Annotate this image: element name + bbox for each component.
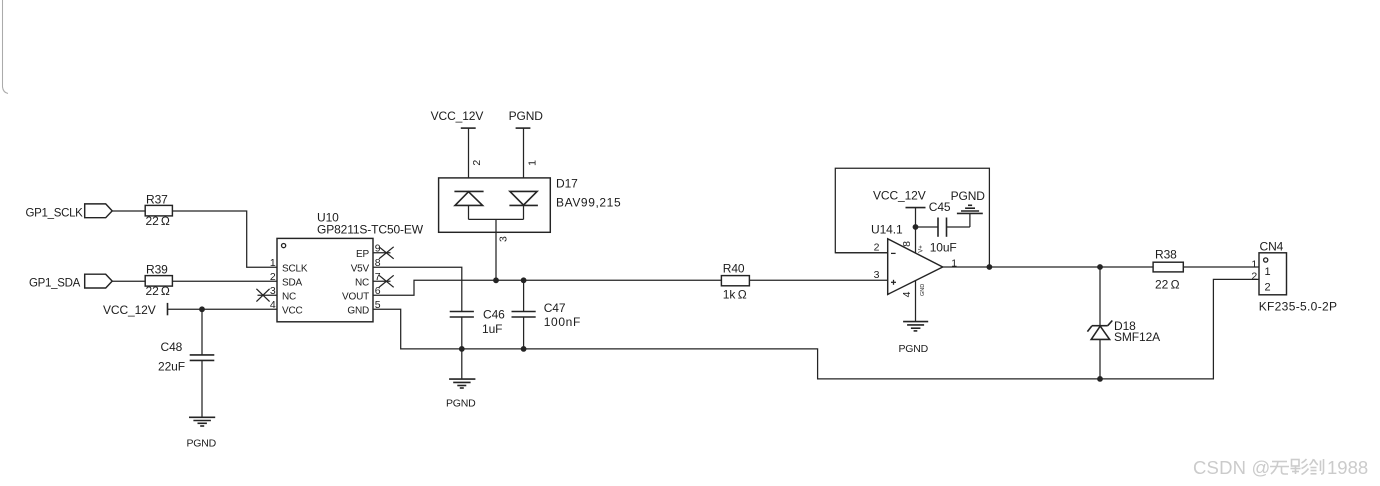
glyph jian [1310, 459, 1314, 465]
svg-text:4: 4 [270, 299, 276, 311]
svg-text:2: 2 [1251, 271, 1257, 283]
junction D18/output [1097, 264, 1103, 270]
svg-text:PGND: PGND [899, 343, 929, 355]
svg-text:C47: C47 [544, 301, 566, 315]
svg-text:22Ω: 22Ω [146, 284, 170, 298]
D17 right diode (cathode down) [510, 191, 537, 205]
svg-text:V5V: V5V [351, 263, 370, 274]
svg-text:SDA: SDA [282, 277, 302, 288]
resistor R38 [1153, 262, 1183, 272]
watermark CSDN [1193, 457, 1368, 478]
svg-text:V+: V+ [919, 245, 925, 253]
svg-text:3: 3 [498, 236, 510, 242]
svg-text:1kΩ: 1kΩ [723, 288, 747, 302]
wire R40 to opamp pin3 [749, 279, 887, 281]
junction VCC/C48 [199, 306, 205, 312]
svg-text:KF235-5.0-2P: KF235-5.0-2P [1259, 299, 1338, 313]
svg-text:VCC_12V: VCC_12V [873, 188, 926, 202]
svg-text:CSDN @: CSDN @ [1193, 457, 1271, 478]
D17 left diode (cathode up) [454, 190, 483, 192]
svg-text:GND: GND [920, 284, 926, 296]
svg-text:1988: 1988 [1327, 457, 1368, 478]
svg-text:1: 1 [526, 160, 538, 166]
svg-text:2: 2 [471, 160, 483, 166]
svg-text:GND: GND [347, 305, 369, 316]
svg-text:8: 8 [901, 241, 913, 247]
svg-text:GP1_SCLK: GP1_SCLK [26, 207, 84, 219]
svg-text:VCC_12V: VCC_12V [431, 109, 484, 123]
ground PGND under C48 [189, 416, 215, 418]
junction feedback/output [987, 264, 993, 270]
IC U10 [277, 238, 373, 321]
no-connect X on pin7 [379, 275, 394, 287]
no-connect X on pin9 [379, 247, 394, 259]
ground PGND under C46 [449, 378, 475, 380]
svg-text:2: 2 [270, 271, 276, 283]
svg-text:PGND: PGND [951, 189, 986, 203]
svg-text:PGND: PGND [509, 109, 544, 123]
svg-text:C45: C45 [929, 200, 951, 214]
svg-text:1: 1 [270, 257, 276, 269]
svg-text:R40: R40 [723, 261, 745, 275]
svg-text:4: 4 [901, 291, 913, 297]
svg-text:R39: R39 [146, 262, 168, 276]
D17 common connector [469, 218, 524, 220]
wire VCC_12V to U10 pin4 [168, 308, 278, 310]
junction C47/main line [521, 277, 527, 283]
wire GP1_SCLK to R37 [112, 210, 145, 212]
svg-text:1: 1 [1265, 266, 1271, 278]
junction VCC/C45 [913, 224, 919, 230]
junction D18/ground rail [1097, 376, 1103, 382]
svg-text:NC: NC [355, 277, 369, 288]
svg-text:BAV99,215: BAV99,215 [556, 195, 621, 209]
wire C46 junction to PGND [461, 349, 463, 379]
capacitor C46 [450, 311, 474, 313]
port GP1_SCLK flag [85, 204, 113, 218]
svg-text:2: 2 [1265, 282, 1271, 294]
svg-text:U14.1: U14.1 [871, 223, 903, 237]
junction D17/main line [493, 277, 499, 283]
wire PGND to D17 pin1 [523, 128, 525, 191]
minus sign [891, 252, 896, 254]
svg-text:22uF: 22uF [158, 360, 185, 374]
capacitor C45 [916, 226, 939, 228]
svg-text:D17: D17 [556, 177, 578, 191]
CN4 pin1 indicator circle [1264, 258, 1268, 262]
wire VCC_12V to D17 pin2 [468, 128, 470, 191]
svg-text:PGND: PGND [446, 397, 476, 409]
junction C46/ground rail [459, 346, 465, 352]
port GP1_SDA flag [85, 274, 113, 288]
ground PGND under opamp [903, 321, 928, 323]
page edge artifact line [3, 0, 9, 94]
svg-text:SCLK: SCLK [282, 263, 308, 274]
resistor R40 [721, 276, 749, 286]
svg-text:R38: R38 [1155, 247, 1177, 261]
svg-text:2: 2 [874, 242, 880, 254]
svg-text:1: 1 [1251, 258, 1257, 270]
wire GND pin5 to ground rail [373, 279, 1259, 379]
zener diode D18 [1099, 267, 1101, 326]
svg-text:VOUT: VOUT [342, 291, 369, 302]
ground PGND right of C45 (inverted earth) [957, 212, 983, 214]
svg-text:C46: C46 [483, 307, 505, 321]
U10 pin1 indicator dot [282, 244, 286, 248]
diode pack D17 box [439, 178, 551, 232]
wire D17 pin3 to main node [495, 219, 497, 280]
resistor R37 [145, 205, 172, 216]
svg-text:10uF: 10uF [930, 241, 957, 255]
wire R39 to U10 pin2 [172, 280, 277, 282]
wire V5V pin8 to C46 [373, 267, 462, 311]
opamp pin8 power wire [915, 227, 917, 253]
feedback wire opamp output to pin2 [835, 168, 989, 267]
glyph wu [1272, 461, 1287, 463]
wire GP1_SDA to R39 [112, 280, 145, 282]
capacitor C47 [523, 280, 525, 311]
opamp pin4 ground wire [915, 281, 917, 322]
no-connect X on pin3 [256, 289, 269, 302]
svg-text:GP8211S-TC50-EW: GP8211S-TC50-EW [317, 222, 424, 236]
svg-text:1uF: 1uF [482, 322, 502, 336]
wire R37 to U10 pin1 [172, 211, 277, 267]
svg-text:PGND: PGND [187, 437, 217, 449]
plus sign [891, 281, 896, 283]
wire VOUT pin6 to main node [373, 280, 721, 295]
capacitor C48 [201, 309, 203, 354]
svg-text:R37: R37 [146, 192, 168, 206]
wire R38 to CN4 pin1 [1183, 266, 1259, 268]
svg-text:100nF: 100nF [544, 315, 581, 329]
svg-text:NC: NC [282, 291, 296, 302]
svg-text:C48: C48 [161, 340, 183, 354]
svg-text:GP1_SDA: GP1_SDA [29, 277, 81, 289]
op-amp U14.1 [888, 239, 943, 295]
svg-text:VCC_12V: VCC_12V [103, 303, 156, 317]
junction C47/ground rail [521, 346, 527, 352]
resistor R39 [145, 276, 172, 287]
U10 pin9 EP stub [373, 252, 391, 254]
svg-text:22Ω: 22Ω [146, 214, 170, 228]
svg-text:VCC: VCC [282, 305, 303, 316]
U10 pin7 NC stub [373, 280, 391, 282]
svg-text:SMF12A: SMF12A [1114, 330, 1160, 344]
watermark CJK glyphs (approximated strokes) [1270, 459, 1324, 475]
svg-text:EP: EP [356, 249, 369, 260]
U10 pin3 NC stub [258, 294, 278, 296]
svg-text:3: 3 [874, 269, 880, 281]
svg-text:22Ω: 22Ω [1155, 277, 1180, 291]
svg-text:CN4: CN4 [1260, 239, 1284, 253]
wire opamp output to R38 [943, 266, 1153, 268]
opamp pin2 wire [835, 252, 887, 254]
connector CN4 [1259, 253, 1287, 295]
glyph ying [1292, 460, 1300, 467]
